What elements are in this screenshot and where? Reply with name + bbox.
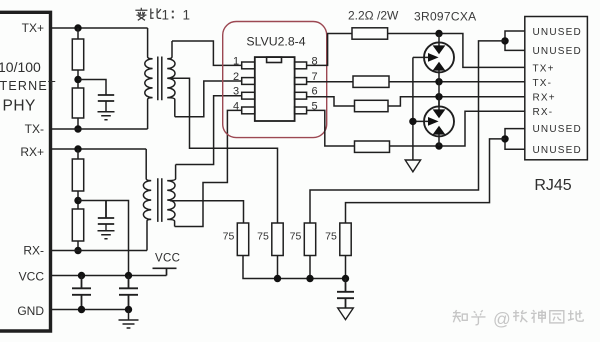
svg-text:TX-: TX-: [533, 78, 553, 89]
svg-text:75: 75: [325, 231, 337, 243]
labels 75: [223, 231, 337, 243]
svg-text:75: 75: [257, 231, 269, 243]
wire GND rail: [51, 309, 129, 311]
resistor 75 #1: [237, 223, 248, 256]
resistor 2.2Ω/2W: [352, 28, 388, 39]
wire TX- from PHY to transformer T1: [51, 128, 148, 130]
svg-text:1: 1: [162, 8, 170, 23]
pin 2: [242, 78, 255, 85]
chassis ground (open triangle) below C5: [338, 308, 354, 320]
wire resistor to GDT2 bottom and RJ45 RX-: [390, 111, 525, 146]
wire pin 8 to resistor 2.2 ohm: [307, 34, 352, 66]
wire resistor 2.2 to GDT1 top and RJ45 TX+: [388, 34, 525, 68]
svg-text:TX+: TX+: [22, 21, 44, 35]
node dot RX-: [74, 247, 81, 254]
ground (earth) below C1: [98, 101, 115, 120]
svg-text:UNUSED: UNUSED: [533, 145, 582, 156]
svg-text:3: 3: [233, 86, 239, 98]
resistor 75 #3: [304, 223, 315, 256]
node dot GDT1 bottom / pin7 line: [435, 78, 442, 85]
wire T1 secondary center tap to resistor 75 #2: [170, 78, 278, 223]
wire RX mid to capacitor C2 and to VCC rail: [78, 201, 129, 276]
wire RJ45 unused pair bottom bracket: [505, 129, 525, 150]
wire pin 5 row with resistor: [307, 110, 355, 146]
svg-text:SLVU2.8-4: SLVU2.8-4: [246, 35, 305, 49]
resistor 75 #2: [272, 223, 283, 256]
resistor 75 (RX+ series): [355, 100, 389, 111]
node dot top bracket: [501, 37, 508, 44]
pin 7: [295, 78, 307, 85]
svg-text:1: 1: [233, 56, 239, 68]
capacitor C1: [98, 95, 114, 101]
wire T2 secondary top to chip pin 3: [176, 96, 242, 165]
svg-text:TX+: TX+: [533, 64, 555, 75]
wire pin 7 row to RJ45 TX- with resistor: [307, 81, 353, 83]
label 3R097CXA: [414, 10, 476, 24]
transformer T1 secondary winding: [167, 41, 175, 117]
RJ45 pin labels: [533, 27, 582, 156]
wire top bracket to resistor 75 #3: [310, 41, 505, 223]
U1 label SLVU2.8-4: [246, 35, 305, 49]
label 2.2Ω /2W: [348, 9, 399, 23]
node dot GDT1 top: [435, 30, 442, 37]
watermark 知乎 @牧神园地 drawn as vector strokes: [453, 309, 584, 329]
svg-text:VCC: VCC: [155, 253, 180, 265]
wire RJ45 unused pair top bracket: [505, 31, 525, 50]
svg-text:75: 75: [290, 231, 302, 243]
pin 1: [242, 62, 255, 69]
svg-text:RX-: RX-: [23, 244, 44, 258]
svg-text:UNUSED: UNUSED: [533, 27, 582, 38]
pin 5: [295, 107, 307, 114]
transformer T2 primary winding: [143, 149, 151, 251]
resistor 75 (RX- series): [355, 141, 390, 152]
chassis ground (open triangle) for GDT: [405, 160, 420, 172]
node dot RX+ / R3 top: [74, 145, 81, 152]
pin 4: [242, 107, 255, 114]
ground (earth) below GND rail: [119, 310, 139, 329]
svg-text:RX-: RX-: [533, 107, 554, 118]
pin 6: [295, 92, 307, 99]
wire TX+ from PHY to transformer T1: [51, 27, 148, 29]
gas discharge tube GDT1 (3R097CXA): [424, 42, 454, 72]
node dot GND/C3: [78, 306, 85, 313]
wire TX mid to capacitor C1: [78, 80, 106, 96]
resistor R1 (TX bias upper): [77, 28, 79, 39]
svg-text:3R097CXA: 3R097CXA: [414, 10, 476, 24]
node dot GDT2 top / pin6 line: [435, 93, 442, 100]
node dot RX mid: [74, 197, 81, 204]
resistor R2 (TX bias lower): [72, 88, 83, 118]
capacitor C3 (VCC-GND): [72, 276, 91, 310]
node dot TX-: [74, 125, 81, 132]
node dots on bus: [274, 275, 281, 282]
gas discharge tube GDT2 (3R097CXA): [424, 106, 454, 136]
transformer T2 secondary winding: [167, 165, 175, 227]
node dot VCC/C3: [78, 272, 85, 279]
capacitor C2: [98, 201, 114, 225]
capacitor C4 (VCC-GND): [119, 276, 138, 310]
wire termination bus: [243, 256, 346, 279]
chip U1 TVS array SLVU2.8-4 body: [255, 57, 295, 121]
wire GDT left electrodes common: [413, 56, 429, 58]
svg-text:UNUSED: UNUSED: [533, 46, 582, 57]
svg-text:10/100: 10/100: [0, 59, 41, 75]
svg-text:@: @: [493, 309, 511, 329]
svg-text:1: 1: [183, 8, 191, 23]
wire VCC rail: [51, 275, 167, 277]
wire RX+ from PHY to transformer T2: [51, 148, 147, 150]
svg-text:6: 6: [311, 86, 317, 98]
transformer T2 core: [158, 178, 162, 222]
wire T2 secondary center tap to resistor 75 #1: [170, 201, 244, 223]
VCC power symbol: [153, 268, 177, 275]
svg-text:ETERNET: ETERNET: [0, 79, 57, 93]
resistor R4 (RX bias lower): [72, 209, 83, 241]
wire T1 secondary top to chip pin 1: [172, 41, 242, 65]
resistor 75 (TX- series): [353, 76, 389, 87]
RJ45 connector box: [525, 17, 588, 160]
PHY box labels: [0, 21, 57, 318]
PHY box (10/100 ETHERNET PHY, clipped at left edge): [0, 12, 51, 331]
wire T1 secondary bottom to chip pin 2: [175, 81, 242, 117]
svg-text:2.2Ω /2W: 2.2Ω /2W: [348, 9, 399, 23]
U1 pin-1 notch: [267, 57, 282, 62]
node dot VCC/C4: [125, 272, 132, 279]
label 变比1：1 (turns ratio), CJK drawn as vector strokes: [135, 8, 161, 21]
svg-text:GND: GND: [17, 304, 44, 318]
svg-text:RX+: RX+: [533, 93, 556, 104]
node dot TX mid: [74, 76, 81, 83]
node dot GND/C4: [125, 306, 132, 313]
svg-text:75: 75: [223, 231, 235, 243]
svg-text:RJ45: RJ45: [534, 177, 571, 194]
transformer T1 core: [158, 57, 162, 101]
capacitor C5 (bus to chassis): [337, 279, 354, 309]
wire T2 secondary bottom to chip pin 4: [175, 110, 242, 226]
node dot GDT2 bottom / pin5 line: [435, 142, 442, 149]
pin 8: [295, 62, 307, 69]
red highlight box around TVS chip: [223, 22, 327, 138]
transformer T1 primary winding: [145, 28, 153, 129]
svg-text:4: 4: [233, 100, 239, 112]
wire RX- from PHY to transformer T2: [51, 250, 148, 252]
ground (earth) below C2: [98, 231, 115, 239]
node dot TX+ / R1 top: [74, 24, 81, 31]
wire pin 6 row to RJ45 RX+ with resistor: [307, 97, 355, 106]
svg-text:UNUSED: UNUSED: [533, 124, 582, 135]
label RJ45: [534, 177, 571, 194]
pin number labels: [233, 56, 318, 113]
svg-text:RX+: RX+: [20, 145, 44, 159]
node dot GDT left common: [409, 118, 416, 125]
pin 3: [242, 92, 255, 99]
wire bottom bracket to resistor 75 #4: [346, 139, 506, 223]
svg-text:2: 2: [233, 71, 239, 83]
resistor 75 #4: [340, 223, 351, 256]
node dot bottom bracket: [501, 135, 508, 142]
svg-text:VCC: VCC: [19, 270, 45, 284]
resistor R3 (RX bias upper): [77, 149, 79, 159]
svg-text:TX-: TX-: [25, 122, 44, 136]
svg-text:PHY: PHY: [3, 98, 36, 115]
